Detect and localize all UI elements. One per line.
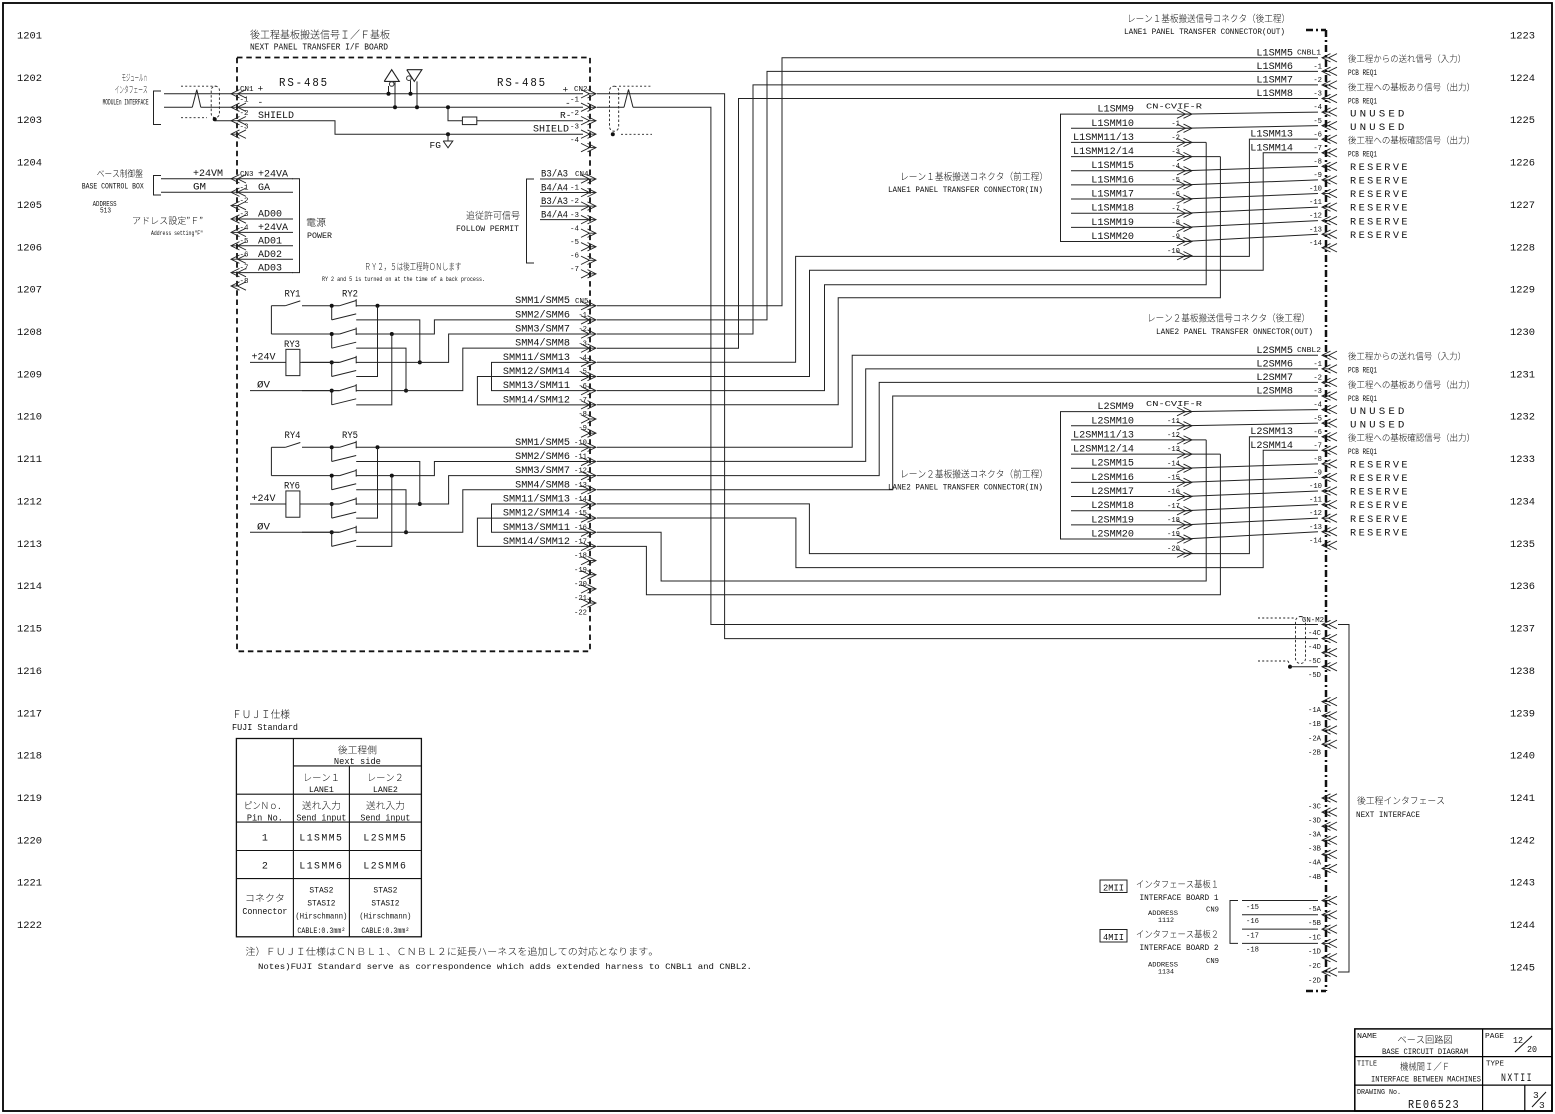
svg-text:20: 20 xyxy=(1527,1044,1537,1055)
svg-text:-5: -5 xyxy=(578,369,587,377)
wire SMM11/SMM13 pair join xyxy=(492,362,592,390)
bracket power group xyxy=(292,179,300,273)
svg-text:LANE1: LANE1 xyxy=(309,786,334,795)
wire RY1 common rail xyxy=(270,306,272,334)
svg-text:-15: -15 xyxy=(574,510,587,518)
svg-text:NXTII: NXTII xyxy=(1501,1073,1533,1085)
svg-text:CN-M2: CN-M2 xyxy=(1302,617,1324,625)
svg-text:-8: -8 xyxy=(240,278,249,286)
svg-text:RY2: RY2 xyxy=(342,289,358,300)
title block TITLE cell xyxy=(1357,1061,1481,1085)
svg-text:1234: 1234 xyxy=(1510,496,1535,508)
svg-text:-17: -17 xyxy=(1246,932,1259,940)
svg-text:RY1: RY1 xyxy=(285,289,301,300)
node dot RY2 pole 4 common xyxy=(330,389,334,393)
svg-text:CN2: CN2 xyxy=(574,86,588,94)
svg-text:PCB REQ1: PCB REQ1 xyxy=(1348,395,1377,404)
svg-text:CN4: CN4 xyxy=(575,171,589,179)
svg-text:-1C: -1C xyxy=(1308,934,1322,942)
svg-text:LANE1 PANEL TRANSFER CONNECTOR: LANE1 PANEL TRANSFER CONNECTOR(OUT) xyxy=(1124,27,1285,37)
svg-text:-2C: -2C xyxy=(1308,963,1322,971)
svg-text:+24VA: +24VA xyxy=(258,222,288,233)
svg-text:1232: 1232 xyxy=(1510,412,1535,424)
svg-text:-14: -14 xyxy=(574,496,587,504)
svg-text:-15: -15 xyxy=(1246,904,1259,912)
wire SMM12/SMM14 to CNBL1-7 (L1SMM14) xyxy=(597,153,1318,377)
resistor (RS-485 termination) xyxy=(462,117,476,125)
svg-text:-2A: -2A xyxy=(1308,735,1322,743)
svg-text:-18: -18 xyxy=(574,553,587,561)
wire pole1 blade to row4 xyxy=(356,461,420,503)
svg-text:-7: -7 xyxy=(1171,205,1180,213)
svg-text:RESERVE: RESERVE xyxy=(1350,189,1410,201)
wire SMM14/SMM12(2) to CN-CVIF-R2-3 xyxy=(597,454,1220,595)
notes FUJI standard xyxy=(246,947,752,972)
wire pole1 top to SMM row0 xyxy=(356,305,591,307)
svg-text:LANE2 PANEL TRANSFER CONNECTOR: LANE2 PANEL TRANSFER CONNECTOR(IN) xyxy=(888,483,1043,493)
svg-text:-2: -2 xyxy=(240,110,249,118)
connector CN-CVIF-R (lane2, 11 pins) xyxy=(1146,401,1203,557)
svg-text:CNBL1: CNBL1 xyxy=(1297,50,1322,58)
node dot RY2 pole 2 common xyxy=(330,332,334,336)
wire SMM2/SMM6 to CNBL1-1 (L1SMM6) xyxy=(597,71,1318,320)
svg-text:RS-485: RS-485 xyxy=(497,77,547,90)
svg-text:-1: -1 xyxy=(240,97,250,105)
svg-text:1206: 1206 xyxy=(17,242,42,254)
svg-text:UNUSED: UNUSED xyxy=(1350,109,1408,121)
wire SMM13/SMM11(2) to CN-CVIF-R2-2 xyxy=(597,440,1206,581)
svg-text:SMM2/SMM6: SMM2/SMM6 xyxy=(515,451,570,462)
title block DRAWING No cell RE06523 xyxy=(1357,1089,1460,1112)
svg-text:L1SMM16: L1SMM16 xyxy=(1091,174,1134,185)
svg-text:-3C: -3C xyxy=(1308,803,1322,811)
node dot RY2 pole 3 common xyxy=(330,360,334,364)
stub wires -15..-18 to CN-M2 xyxy=(1242,901,1318,955)
svg-text:-4: -4 xyxy=(1313,104,1322,112)
svg-text:RESERVE: RESERVE xyxy=(1350,216,1410,228)
svg-text:3: 3 xyxy=(1539,1100,1545,1111)
svg-text:-4A: -4A xyxy=(1308,860,1322,868)
svg-text:L2SMM16: L2SMM16 xyxy=(1091,472,1134,483)
svg-text:-6: -6 xyxy=(578,383,587,391)
svg-text:-10: -10 xyxy=(1309,483,1322,491)
wire 0V to pole4 xyxy=(250,531,340,533)
svg-text:L2SMM12/14: L2SMM12/14 xyxy=(1073,444,1134,455)
svg-text:1203: 1203 xyxy=(17,115,42,127)
svg-text:-8: -8 xyxy=(578,411,587,419)
relay coil RY3 xyxy=(284,339,300,376)
svg-text:SMM11/SMM13: SMM11/SMM13 xyxy=(503,352,570,363)
svg-text:L1SMM6: L1SMM6 xyxy=(299,862,343,873)
svg-text:-6: -6 xyxy=(570,252,580,260)
svg-text:AD02: AD02 xyxy=(258,249,282,260)
svg-text:RY3: RY3 xyxy=(284,339,300,350)
svg-text:1: 1 xyxy=(262,834,268,845)
interface board 2 tag box 4MII xyxy=(1100,930,1127,944)
label BASE CONTROL BOX xyxy=(82,169,144,191)
svg-text:-3: -3 xyxy=(1313,388,1322,396)
svg-text:ØV: ØV xyxy=(257,380,270,391)
svg-text:-13: -13 xyxy=(1309,226,1322,234)
svg-text:-7: -7 xyxy=(578,397,587,405)
svg-text:1227: 1227 xyxy=(1510,200,1535,212)
wire pole3 blade up to row0 xyxy=(356,447,377,518)
wire module SHIELD drain to CN1 xyxy=(215,120,231,122)
connector CNBL1 (lane1 out cable, 15 pins) xyxy=(1297,50,1337,252)
node dot RY5 pole 1 common xyxy=(330,445,334,449)
svg-text:RESERVE: RESERVE xyxy=(1350,514,1410,526)
svg-text:1211: 1211 xyxy=(17,454,42,466)
svg-text:1215: 1215 xyxy=(17,624,42,636)
svg-text:PAGE: PAGE xyxy=(1485,1033,1505,1041)
CN1 pin name labels + - SHIELD xyxy=(258,84,295,122)
wire RY6 coil to pole3 xyxy=(300,503,340,505)
svg-text:1223: 1223 xyxy=(1510,31,1535,43)
svg-text:1245: 1245 xyxy=(1510,962,1535,974)
svg-text:-: - xyxy=(258,97,264,108)
node dot on - line at R- branch xyxy=(446,105,450,109)
node dot pole1-blade/row4 xyxy=(418,360,422,364)
wire pole3 top jog to SMM row2 xyxy=(356,334,591,362)
svg-text:-14: -14 xyxy=(1309,240,1322,248)
svg-text:L2SMM5: L2SMM5 xyxy=(363,834,407,845)
wire pole4 top jog to SMM row3 xyxy=(356,490,591,532)
svg-text:L2SMM14: L2SMM14 xyxy=(1250,440,1293,451)
svg-text:L1SMM7: L1SMM7 xyxy=(1256,74,1293,85)
svg-text:INTERFACE BETWEEN MACHINES: INTERFACE BETWEEN MACHINES xyxy=(1371,1075,1481,1085)
wire rail to pole2 xyxy=(271,333,302,335)
wire SMM4/SMM8(2) to CNBL2-3 (L2SMM8) xyxy=(597,396,1318,490)
svg-text:-13: -13 xyxy=(574,482,587,490)
svg-text:513: 513 xyxy=(100,208,111,216)
svg-text:-5: -5 xyxy=(1171,177,1180,185)
svg-text:RESERVE: RESERVE xyxy=(1350,176,1410,188)
svg-text:AD03: AD03 xyxy=(258,262,282,273)
board title NEXT PANEL TRANSFER I/F BOARD xyxy=(250,29,390,52)
svg-text:ØV: ØV xyxy=(257,521,270,532)
cable shield (dotted) left of CN1 xyxy=(181,86,219,118)
svg-text:L1SMM13: L1SMM13 xyxy=(1250,129,1293,140)
svg-text:-12: -12 xyxy=(1309,213,1322,221)
node dot pole2-blade/row6 xyxy=(404,530,408,534)
svg-text:-5C: -5C xyxy=(1308,658,1322,666)
svg-text:CN3: CN3 xyxy=(240,171,254,179)
svg-text:-1: -1 xyxy=(1171,120,1180,128)
wire shield drain to CN-M2-5D xyxy=(1290,666,1318,668)
svg-text:-6: -6 xyxy=(1313,131,1322,139)
svg-text:-2: -2 xyxy=(1313,375,1322,383)
svg-text:-3: -3 xyxy=(1171,149,1180,157)
wire pole2 blade to row6 xyxy=(356,348,406,390)
svg-text:-4: -4 xyxy=(570,137,580,145)
svg-text:RESERVE: RESERVE xyxy=(1350,460,1410,472)
svg-text:CABLE:0.3mm²: CABLE:0.3mm² xyxy=(361,927,409,936)
CN3 pin stub wires and labels xyxy=(239,169,293,274)
svg-text:-6: -6 xyxy=(240,251,250,259)
svg-text:+24V: +24V xyxy=(252,351,276,362)
svg-text:L1SMM17: L1SMM17 xyxy=(1091,189,1134,200)
headline LANE2 PANEL TRANSFER ONNECTOR(OUT) xyxy=(1149,313,1313,337)
relay RY5 pole 2 contacts xyxy=(302,469,356,490)
svg-text:-4: -4 xyxy=(1313,402,1322,410)
svg-text:+: + xyxy=(563,85,569,96)
svg-text:Next side: Next side xyxy=(334,757,381,767)
wire SMM12/SMM14(2) to CNBL2-7 (L2SMM14) xyxy=(597,450,1318,567)
wire pole2 top jog to SMM row1 xyxy=(356,320,591,334)
svg-text:CNBL2: CNBL2 xyxy=(1297,347,1321,355)
svg-text:-7: -7 xyxy=(570,266,579,274)
svg-text:Connector: Connector xyxy=(242,907,287,917)
svg-text:-5: -5 xyxy=(240,238,250,246)
svg-text:BASE CIRCUIT DIAGRAM: BASE CIRCUIT DIAGRAM xyxy=(1382,1047,1468,1057)
svg-text:L1SMM5: L1SMM5 xyxy=(299,834,343,845)
node dot shield-FG junction xyxy=(446,132,450,136)
svg-text:-12: -12 xyxy=(1309,510,1322,518)
svg-text:SMM4/SMM8: SMM4/SMM8 xyxy=(515,479,570,490)
node dot pole4-blade/pole2 line xyxy=(390,474,394,478)
svg-text:SMM13/SMM11: SMM13/SMM11 xyxy=(503,522,570,533)
svg-text:B3/A3: B3/A3 xyxy=(541,196,568,207)
headline LANE1 PANEL TRANSFER CONNECTOR(IN) xyxy=(888,172,1043,195)
svg-text:-14: -14 xyxy=(1309,537,1322,545)
label FUJI Standard xyxy=(232,709,298,733)
wire pole4 blade up to row2 xyxy=(356,476,392,547)
svg-text:1230: 1230 xyxy=(1510,327,1535,339)
svg-text:SMM4/SMM8: SMM4/SMM8 xyxy=(515,338,570,349)
svg-text:Notes)FUJI Standard serve as c: Notes)FUJI Standard serve as corresponde… xyxy=(258,962,752,972)
svg-text:-8: -8 xyxy=(1171,219,1180,227)
svg-text:FG: FG xyxy=(430,140,442,151)
svg-text:-7: -7 xyxy=(1313,442,1322,450)
svg-text:L2SMM20: L2SMM20 xyxy=(1091,529,1134,540)
svg-text:-6: -6 xyxy=(1171,191,1180,199)
module interface bracket xyxy=(154,91,162,125)
svg-text:1216: 1216 xyxy=(17,666,42,678)
table FUJI standard xyxy=(236,739,421,937)
svg-text:FOLLOW PERMIT: FOLLOW PERMIT xyxy=(456,224,519,234)
title block TYPE cell NXT II xyxy=(1486,1061,1533,1086)
bracket CN9 stub group xyxy=(1230,901,1238,944)
right margin row numbers 1223-1245 xyxy=(1510,31,1535,975)
label FOLLOW PERMIT xyxy=(456,211,520,234)
title block PAGE cell 12/20 xyxy=(1485,1033,1537,1055)
label INTERFACE BOARD 1 xyxy=(1137,880,1219,903)
svg-text:+24VA: +24VA xyxy=(258,169,288,180)
svg-text:-6: -6 xyxy=(1313,429,1322,437)
svg-text:BASE CONTROL BOX: BASE CONTROL BOX xyxy=(82,183,144,192)
svg-text:-3: -3 xyxy=(570,212,580,220)
svg-text:-5: -5 xyxy=(570,239,580,247)
svg-text:-3A: -3A xyxy=(1308,832,1322,840)
svg-text:R-: R- xyxy=(560,110,571,121)
CN2 pin name labels + - R- SHIELD xyxy=(533,85,571,135)
svg-text:L1SMM20: L1SMM20 xyxy=(1091,231,1134,242)
svg-text:L1SMM18: L1SMM18 xyxy=(1091,203,1134,214)
svg-text:1218: 1218 xyxy=(17,751,42,763)
bracket follow permit group xyxy=(527,179,535,263)
node dots for up-triangle stems xyxy=(387,92,391,96)
svg-text:RESERVE: RESERVE xyxy=(1350,473,1410,485)
svg-text:1228: 1228 xyxy=(1510,242,1535,254)
wire pole2 blade to row6 xyxy=(356,490,406,532)
svg-text:RY 2 and 5 is turned on at the: RY 2 and 5 is turned on at the time of a… xyxy=(322,276,485,283)
svg-text:SMM13/SMM11: SMM13/SMM11 xyxy=(503,380,570,391)
svg-text:-10: -10 xyxy=(1309,186,1322,194)
svg-text:-16: -16 xyxy=(1167,489,1180,497)
node dot cable shield drain (right) xyxy=(611,132,615,136)
svg-text:1222: 1222 xyxy=(17,920,42,932)
svg-text:-15: -15 xyxy=(1167,475,1180,483)
svg-text:+24V: +24V xyxy=(252,493,276,504)
svg-text:-12: -12 xyxy=(1167,432,1180,440)
svg-text:CN9: CN9 xyxy=(1206,958,1219,966)
svg-text:1214: 1214 xyxy=(17,581,42,593)
board outline (dashed) NEXT PANEL TRANSFER I/F BOARD xyxy=(237,58,590,652)
svg-text:-11: -11 xyxy=(574,454,587,462)
node dot RY5 pole 2 common xyxy=(330,474,334,478)
svg-text:1112: 1112 xyxy=(1158,917,1174,925)
node dot pole4-blade/pole2 line xyxy=(390,332,394,336)
wire SMM1/SMM5 to CNBL1-0 (L1SMM5) xyxy=(597,58,1318,306)
svg-text:L1SMM12/14: L1SMM12/14 xyxy=(1073,146,1134,157)
svg-text:L1SMM10: L1SMM10 xyxy=(1091,118,1134,129)
svg-text:FUJI Standard: FUJI Standard xyxy=(232,722,298,733)
svg-text:-8: -8 xyxy=(1313,456,1322,464)
svg-text:-1B: -1B xyxy=(1308,721,1322,729)
svg-text:GM: GM xyxy=(193,182,206,193)
wire SMM11/SMM13 to CNBL1-6 (L1SMM13) xyxy=(597,139,1318,362)
svg-text:Pin No.: Pin No. xyxy=(247,814,283,824)
wire SMM12/SMM14 pair join xyxy=(477,518,591,546)
svg-text:RESERVE: RESERVE xyxy=(1350,162,1410,174)
svg-text:1233: 1233 xyxy=(1510,454,1535,466)
svg-text:L2SMM18: L2SMM18 xyxy=(1091,500,1134,511)
wire R- (termination branch from - line) xyxy=(448,107,462,121)
wire pole3 top jog to SMM row2 xyxy=(356,476,591,504)
machine boundary line (dash-dot) xyxy=(1306,30,1326,991)
wire RS-485 + to CN-M2-4D xyxy=(597,94,1318,639)
svg-text:+: + xyxy=(258,84,264,95)
svg-text:1201: 1201 xyxy=(17,31,42,43)
svg-text:1229: 1229 xyxy=(1510,285,1535,297)
bracket CN-M2 next interface xyxy=(1338,625,1349,973)
cable shield (dotted) at CN-M2 xyxy=(1258,617,1306,666)
svg-text:UNUSED: UNUSED xyxy=(1350,420,1408,432)
svg-text:CN9: CN9 xyxy=(1206,907,1219,915)
svg-text:RESERVE: RESERVE xyxy=(1350,500,1410,512)
wire pole3 blade up to row0 xyxy=(356,306,377,377)
svg-text:L1SMM6: L1SMM6 xyxy=(1256,61,1293,72)
svg-text:INTERFACE BOARD 1: INTERFACE BOARD 1 xyxy=(1140,895,1219,903)
svg-text:L2SMM15: L2SMM15 xyxy=(1091,458,1134,469)
svg-text:1237: 1237 xyxy=(1510,624,1535,636)
svg-text:1210: 1210 xyxy=(17,412,42,424)
svg-text:-21: -21 xyxy=(574,595,587,603)
svg-text:1244: 1244 xyxy=(1510,920,1535,932)
svg-text:-10: -10 xyxy=(1167,248,1180,256)
svg-text:-17: -17 xyxy=(574,539,587,547)
svg-text:SHIELD: SHIELD xyxy=(533,123,569,134)
cable shield (dotted) right of CN2 xyxy=(610,86,653,134)
svg-text:-4: -4 xyxy=(1171,163,1180,171)
wire GM to CN3-1 xyxy=(161,191,231,193)
svg-text:+24VM: +24VM xyxy=(193,168,223,179)
svg-text:1225: 1225 xyxy=(1510,115,1535,127)
svg-text:1243: 1243 xyxy=(1510,878,1535,890)
svg-text:-1: -1 xyxy=(240,184,250,192)
svg-text:-2: -2 xyxy=(1313,77,1322,85)
svg-text:L1SMM11/13: L1SMM11/13 xyxy=(1073,132,1134,143)
svg-text:1231: 1231 xyxy=(1510,369,1535,381)
svg-text:DRAWING No.: DRAWING No. xyxy=(1357,1089,1401,1097)
relay coil RY6 xyxy=(284,480,300,517)
wire RY3 coil to pole3 xyxy=(300,361,340,363)
svg-text:-: - xyxy=(565,98,571,109)
label POWER xyxy=(307,218,332,241)
svg-text:-17: -17 xyxy=(1167,503,1180,511)
svg-text:CN-CVIF-R: CN-CVIF-R xyxy=(1146,104,1203,112)
svg-text:PCB REQ1: PCB REQ1 xyxy=(1348,448,1377,457)
svg-text:-1D: -1D xyxy=(1308,949,1321,957)
left margin row numbers 1201-1222 xyxy=(17,31,42,933)
svg-text:L1SMM14: L1SMM14 xyxy=(1250,142,1293,153)
svg-text:12: 12 xyxy=(1513,1035,1523,1046)
svg-text:1134: 1134 xyxy=(1158,969,1174,977)
svg-text:-11: -11 xyxy=(1167,418,1180,426)
svg-text:-4D: -4D xyxy=(1308,644,1321,652)
label ADDRESS 1112 CN9 xyxy=(1148,907,1219,926)
svg-text:UNUSED: UNUSED xyxy=(1350,122,1408,134)
svg-text:STASI2: STASI2 xyxy=(307,900,335,909)
svg-text:Address setting"F": Address setting"F" xyxy=(151,230,203,237)
svg-text:1241: 1241 xyxy=(1510,793,1535,805)
wire pole4 top jog to SMM row3 xyxy=(356,348,591,390)
connector CN-CVIF-R (lane1, 11 pins) xyxy=(1146,104,1203,260)
svg-text:-7: -7 xyxy=(1313,145,1322,153)
svg-text:-3: -3 xyxy=(1313,91,1322,99)
bias network triangle (down) with bubble xyxy=(407,70,422,108)
svg-text:-11: -11 xyxy=(1309,497,1322,505)
svg-text:1208: 1208 xyxy=(17,327,42,339)
svg-text:-13: -13 xyxy=(1167,446,1180,454)
svg-text:-1: -1 xyxy=(1313,63,1322,71)
svg-text:LANE2 PANEL TRANSFER ONNECTOR(: LANE2 PANEL TRANSFER ONNECTOR(OUT) xyxy=(1156,327,1313,337)
CN4 pin stub wires and labels B3/A3 B4/A4 xyxy=(540,169,588,221)
svg-text:-20: -20 xyxy=(574,581,587,589)
wire RS-485 - (CN1 to CN2) xyxy=(239,106,583,108)
svg-text:1236: 1236 xyxy=(1510,581,1535,593)
svg-text:CN1: CN1 xyxy=(240,86,254,94)
svg-text:CN5: CN5 xyxy=(575,298,589,306)
svg-text:SMM3/SMM7: SMM3/SMM7 xyxy=(515,324,570,335)
relay RY2 pole 2 contacts xyxy=(302,328,356,349)
relay RY5 pole 4 contacts xyxy=(302,526,356,547)
svg-text:-4: -4 xyxy=(570,225,580,233)
svg-text:PCB REQ1: PCB REQ1 xyxy=(1348,151,1377,160)
svg-text:-3: -3 xyxy=(240,123,250,131)
svg-text:2: 2 xyxy=(262,862,268,873)
svg-text:RESERVE: RESERVE xyxy=(1350,487,1410,499)
svg-text:1202: 1202 xyxy=(17,73,42,85)
svg-text:L1SMM8: L1SMM8 xyxy=(1256,88,1293,99)
svg-text:(Hirschmann): (Hirschmann) xyxy=(295,912,347,922)
svg-text:(Hirschmann): (Hirschmann) xyxy=(359,912,411,922)
relay RY2 pole 4 contacts xyxy=(302,384,356,405)
svg-text:-2B: -2B xyxy=(1308,750,1322,758)
svg-text:1209: 1209 xyxy=(17,369,42,381)
node dot pole1-blade/row4 xyxy=(418,502,422,506)
svg-text:RY5: RY5 xyxy=(342,430,358,441)
